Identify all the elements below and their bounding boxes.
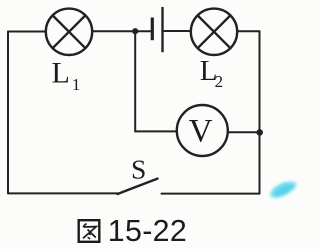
wire right vertical <box>259 31 261 193</box>
wire L2 to top-right corner <box>237 30 259 32</box>
wire top-left to L1 <box>8 31 46 33</box>
caption character 图 (drawn) <box>79 220 100 242</box>
lamp L2 <box>191 9 237 55</box>
voltmeter U1 circle <box>177 105 228 156</box>
junction node left (top) <box>132 28 138 34</box>
switch S blade <box>118 179 158 194</box>
battery cell: short plate <box>151 18 154 41</box>
wire voltmeter to right junction <box>228 131 260 133</box>
lamp L1 <box>46 9 92 55</box>
wire left vertical <box>7 32 9 194</box>
battery cell: long plate <box>161 7 163 52</box>
wire bottom-left to switch <box>8 192 118 194</box>
wire L1 to battery <box>92 30 150 32</box>
svg-text:2: 2 <box>215 72 224 91</box>
wire battery to L2 <box>164 30 191 32</box>
svg-text:V: V <box>189 114 213 150</box>
svg-text:15-22: 15-22 <box>108 214 187 248</box>
highlighter scribble (cyan) <box>270 181 297 198</box>
svg-text:1: 1 <box>72 75 81 94</box>
junction node right <box>256 129 263 136</box>
svg-text:L: L <box>52 57 70 90</box>
svg-text:S: S <box>131 154 146 185</box>
wire junction down to voltmeter <box>135 31 177 131</box>
wire switch right contact to corner <box>162 193 260 195</box>
